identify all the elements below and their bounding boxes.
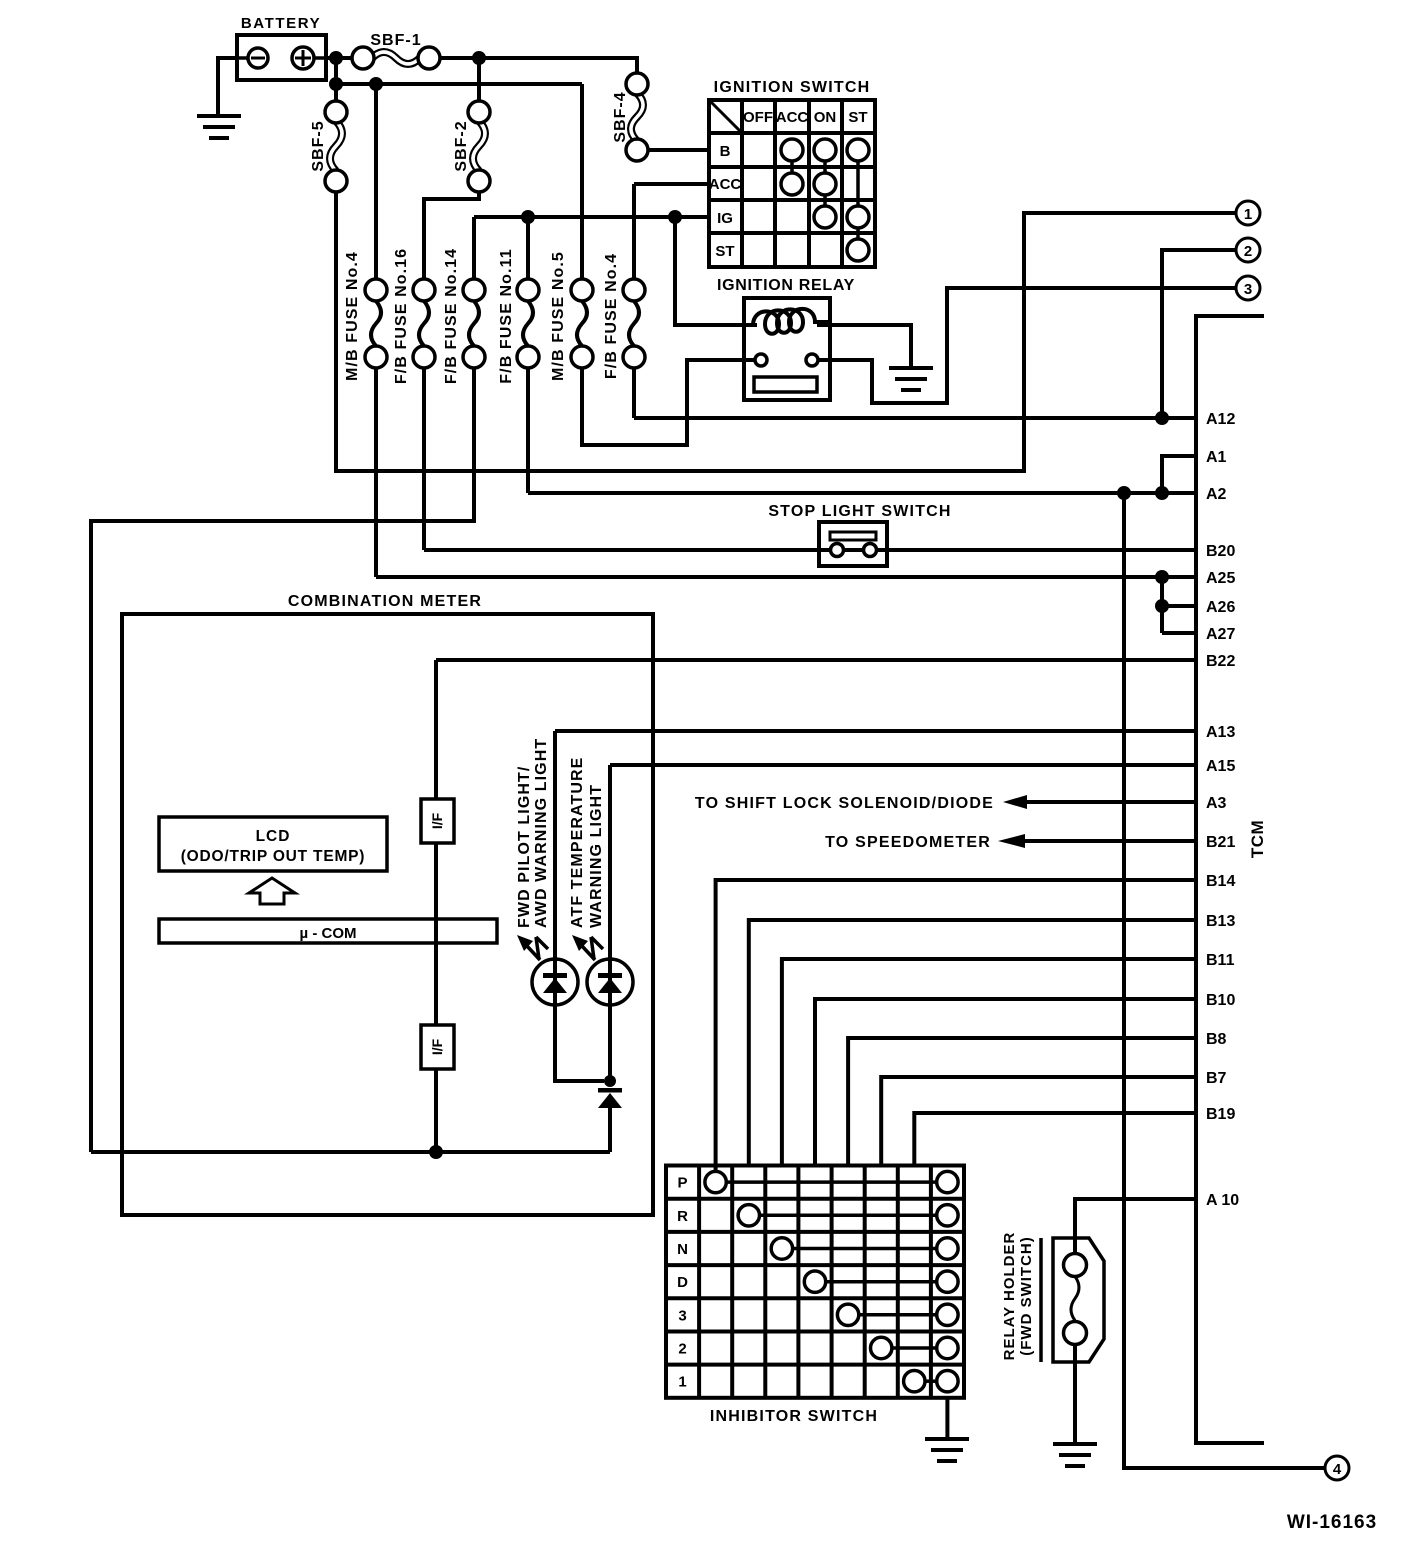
wire pin A25: [376, 575, 1196, 579]
svg-text:SBF-2: SBF-2: [453, 120, 470, 171]
inhibitor row N contacts: [771, 1238, 958, 1259]
wire pin B7: [881, 1077, 1196, 1166]
svg-text:M/B FUSE No.4: M/B FUSE No.4: [344, 251, 361, 381]
svg-text:WI-16163: WI-16163: [1287, 1512, 1377, 1533]
svg-text:D: D: [677, 1274, 688, 1291]
svg-text:INHIBITOR SWITCH: INHIBITOR SWITCH: [710, 1408, 878, 1425]
wire pin A27 stub: [1162, 631, 1196, 635]
svg-text:F/B FUSE No.16: F/B FUSE No.16: [393, 248, 410, 384]
fuse M/B FUSE No.4: [344, 251, 387, 381]
wire SBF-1 to SBF-4: [440, 58, 637, 73]
svg-text:A13: A13: [1206, 724, 1235, 741]
wire M/B fuse No.4 feed: [374, 84, 378, 279]
wire SBF-2 to F/B fuse No.16: [424, 192, 479, 279]
svg-text:M/B FUSE No.5: M/B FUSE No.5: [550, 251, 567, 381]
svg-text:B8: B8: [1206, 1031, 1227, 1048]
I/F box top: [421, 799, 454, 843]
wire pin A13: [555, 729, 1196, 733]
node A25 junction: [1155, 570, 1169, 584]
wire pin B13: [749, 920, 1196, 1166]
wire F/B fuse No.16 to B20: [422, 368, 426, 550]
svg-text:IGNITION SWITCH: IGNITION SWITCH: [714, 79, 871, 96]
fuse M/B FUSE No.5: [550, 251, 593, 381]
svg-text:µ - COM: µ - COM: [300, 925, 357, 942]
node bus84 left: [329, 77, 343, 91]
svg-text:F/B FUSE No.11: F/B FUSE No.11: [498, 248, 515, 383]
LED ATF warning: [587, 959, 633, 1005]
svg-text:P: P: [677, 1175, 687, 1192]
wire F/B fuse No.14 top from IG line: [472, 217, 476, 279]
wire F/B fuse No.4 top from ACC line: [632, 184, 636, 279]
svg-text:ATF TEMPERATURE: ATF TEMPERATURE: [569, 757, 586, 928]
wire pin A12: [634, 416, 1196, 420]
node A12 junction: [1155, 411, 1169, 425]
mu-COM box: [159, 919, 497, 943]
node A2 to A1: [1155, 486, 1169, 500]
wire pin A10: [1075, 1199, 1196, 1254]
ground relay: [889, 368, 933, 390]
diode D1: [598, 1088, 622, 1108]
I/F box bottom: [421, 1025, 454, 1069]
stop light switch SW2: [819, 522, 887, 566]
fuse F/B FUSE No.4: [603, 253, 645, 379]
wire F/B fuse No.4 to A12: [632, 368, 636, 418]
svg-text:FWD PILOT LIGHT/: FWD PILOT LIGHT/: [516, 766, 533, 928]
LED FWD pilot: [532, 959, 578, 1005]
circled 4: [1325, 1456, 1349, 1480]
wire pin A2: [528, 491, 1196, 495]
svg-text:B13: B13: [1206, 913, 1235, 930]
wire relay contact to circled 3: [818, 288, 1236, 403]
fuse SBF-5: [310, 101, 347, 192]
wire pin B19: [914, 1113, 1196, 1166]
inhibitor switch SW3 grid: [666, 1166, 964, 1398]
wire pin A3 with arrow: [1022, 800, 1196, 804]
svg-text:SBF-1: SBF-1: [370, 32, 421, 49]
wire SBF-2 feed: [477, 58, 481, 101]
wire pin B22: [436, 658, 1196, 662]
svg-text:LCD: LCD: [256, 828, 291, 845]
wire pin B11: [782, 959, 1196, 1166]
svg-text:COMBINATION METER: COMBINATION METER: [288, 593, 482, 610]
wire pin A15: [610, 763, 1196, 767]
circled 3: [1236, 276, 1260, 300]
svg-text:ON: ON: [814, 109, 837, 126]
wire I/F chain B22: [434, 660, 438, 1152]
svg-text:ST: ST: [848, 109, 867, 126]
svg-text:TO SPEEDOMETER: TO SPEEDOMETER: [825, 834, 991, 851]
node bottom bus I/F: [429, 1145, 443, 1159]
wire pin B20: [424, 548, 1196, 552]
battery BAT1: [237, 35, 326, 80]
wire M/B fuse No.5 to ignition relay contact: [582, 360, 755, 445]
node bus84 MB4 tap: [369, 77, 383, 91]
wire F/B fuse No.11 top from IG line: [526, 217, 530, 279]
inhibitor row R contacts: [738, 1205, 958, 1226]
svg-text:A27: A27: [1206, 626, 1235, 643]
svg-text:A15: A15: [1206, 758, 1235, 775]
svg-text:TCM: TCM: [1248, 820, 1267, 858]
svg-text:(FWD SWITCH): (FWD SWITCH): [1018, 1236, 1035, 1355]
wire relay coil to ground: [817, 325, 911, 368]
node IG to relay coil: [668, 210, 682, 224]
svg-text:F/B FUSE No.14: F/B FUSE No.14: [443, 248, 460, 384]
inhibitor row D contacts: [804, 1271, 958, 1292]
ground battery: [197, 116, 241, 138]
LED ATF arrows: [572, 935, 603, 960]
svg-text:OFF: OFF: [743, 109, 773, 126]
circled 2: [1236, 238, 1260, 262]
svg-text:B14: B14: [1206, 873, 1235, 890]
wire A15 to ATF LED: [608, 765, 612, 1077]
svg-text:3: 3: [1244, 281, 1252, 298]
svg-text:WARNING LIGHT: WARNING LIGHT: [588, 784, 605, 928]
node A26 junction: [1155, 599, 1169, 613]
svg-text:2: 2: [678, 1341, 686, 1358]
wire A25 to A27 link: [1160, 577, 1164, 633]
svg-text:B7: B7: [1206, 1070, 1227, 1087]
svg-text:A2: A2: [1206, 486, 1227, 503]
svg-text:RELAY HOLDER: RELAY HOLDER: [1001, 1232, 1018, 1361]
node IG to F/B fuse No.11: [521, 210, 535, 224]
svg-text:R: R: [677, 1208, 688, 1225]
svg-text:I/F: I/F: [429, 812, 445, 829]
wire M/B fuse No.5 feed: [580, 84, 584, 279]
wire bottom bus: [91, 1150, 610, 1154]
svg-text:1: 1: [678, 1374, 686, 1391]
ground inhibitor switch: [925, 1439, 969, 1461]
node A2 to circled 4: [1117, 486, 1131, 500]
svg-text:STOP LIGHT SWITCH: STOP LIGHT SWITCH: [768, 503, 951, 520]
wire IG row: [474, 215, 709, 219]
svg-text:IG: IG: [717, 210, 733, 227]
wire battery negative to ground: [218, 58, 237, 116]
svg-text:B22: B22: [1206, 653, 1235, 670]
wire SBF-5 to circled 1: [336, 192, 1236, 471]
wire diode to bottom bus: [608, 1108, 612, 1152]
wire pin B8: [848, 1038, 1196, 1166]
svg-text:ST: ST: [715, 243, 734, 260]
ignition switch SW1: [709, 100, 875, 267]
fuse F/B FUSE No.16: [393, 248, 435, 384]
svg-text:A12: A12: [1206, 411, 1235, 428]
svg-text:2: 2: [1244, 243, 1252, 260]
svg-text:B21: B21: [1206, 834, 1235, 851]
wire pin A1 stub: [1162, 456, 1196, 493]
inhibitor row 1 contacts: [904, 1371, 959, 1392]
svg-text:A26: A26: [1206, 599, 1235, 616]
inhibitor row 3 contacts: [837, 1304, 958, 1325]
LED FWD arrows: [517, 935, 548, 960]
inhibitor row 2 contacts: [871, 1337, 959, 1358]
ground relay holder: [1053, 1444, 1097, 1466]
svg-text:A25: A25: [1206, 570, 1235, 587]
circled 1: [1236, 201, 1260, 225]
svg-text:B: B: [720, 143, 731, 160]
svg-text:SBF-4: SBF-4: [612, 91, 629, 142]
node LED junction: [604, 1075, 616, 1087]
svg-text:1: 1: [1244, 206, 1252, 223]
wire bus y84: [334, 58, 338, 101]
fuse F/B FUSE No.11: [498, 248, 539, 383]
svg-text:ACC: ACC: [709, 176, 742, 193]
svg-text:A3: A3: [1206, 795, 1227, 812]
wire M/B fuse No.4 to A25: [374, 368, 378, 577]
fuse F/B FUSE No.14: [443, 248, 485, 384]
svg-text:SBF-5: SBF-5: [310, 120, 327, 171]
relay holder FWD switch: [1041, 1238, 1104, 1362]
combination meter box: [122, 614, 653, 1215]
wire circled 2 to A12: [1162, 250, 1236, 418]
ignition relay RY1: [744, 298, 830, 400]
fuse SBF-1: [352, 32, 440, 69]
svg-text:B19: B19: [1206, 1106, 1235, 1123]
node SBF-2 tap: [472, 51, 486, 65]
wire A2 to circled 4: [1124, 493, 1325, 1468]
svg-text:A1: A1: [1206, 449, 1227, 466]
wire inhibitor common to ground: [945, 1398, 949, 1439]
svg-text:A 10: A 10: [1206, 1192, 1239, 1209]
wire A13 to FWD LED: [555, 731, 604, 1081]
svg-text:F/B FUSE No.4: F/B FUSE No.4: [603, 253, 620, 379]
svg-text:4: 4: [1333, 1461, 1342, 1478]
wire ACC row to F/B fuse No.4: [634, 182, 709, 186]
block arrow up: [249, 878, 295, 904]
wire pin B10: [815, 999, 1196, 1166]
wire F/B fuse No.14 to combination meter loop: [91, 368, 474, 1152]
wire pin B14: [716, 880, 1196, 1172]
svg-text:N: N: [677, 1241, 688, 1258]
wire relay holder to ground: [1073, 1345, 1077, 1445]
svg-text:3: 3: [678, 1307, 686, 1324]
wire F/B fuse No.11 to A2: [526, 368, 530, 493]
wire SBF-4 to ignition switch B: [648, 148, 709, 152]
svg-text:AWD WARNING LIGHT: AWD WARNING LIGHT: [533, 738, 550, 928]
svg-text:IGNITION RELAY: IGNITION RELAY: [717, 277, 855, 294]
wire battery positive to SBF-1: [326, 56, 352, 60]
wire pin B21 with arrow: [1020, 839, 1196, 843]
TCM connector bracket: [1196, 316, 1264, 1443]
node battery positive junction: [329, 51, 343, 65]
svg-text:(ODO/TRIP OUT TEMP): (ODO/TRIP OUT TEMP): [181, 848, 366, 865]
svg-text:B11: B11: [1206, 952, 1235, 969]
svg-text:BATTERY: BATTERY: [241, 15, 321, 32]
svg-text:B20: B20: [1206, 543, 1235, 560]
wire pin A26 stub: [1162, 604, 1196, 608]
svg-text:ACC: ACC: [776, 109, 809, 126]
LCD box: [159, 817, 387, 871]
wire IG to ignition relay coil: [675, 217, 757, 325]
fuse SBF-2: [453, 101, 490, 192]
svg-text:B10: B10: [1206, 992, 1235, 1009]
svg-text:TO SHIFT LOCK SOLENOID/DIODE: TO SHIFT LOCK SOLENOID/DIODE: [695, 795, 994, 812]
fuse SBF-4: [612, 73, 648, 161]
svg-text:I/F: I/F: [429, 1038, 445, 1055]
inhibitor row P contacts: [705, 1171, 958, 1192]
